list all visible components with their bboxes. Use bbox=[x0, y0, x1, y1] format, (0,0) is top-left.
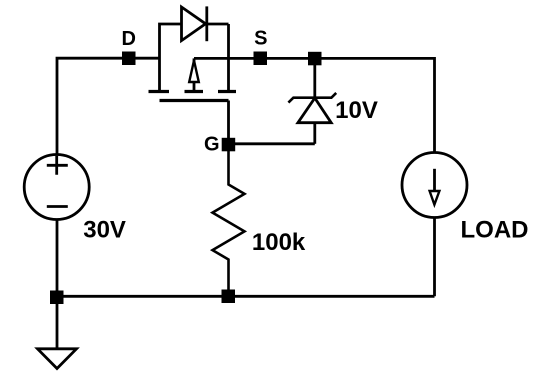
svg-text:10V: 10V bbox=[335, 97, 378, 124]
svg-text:100k: 100k bbox=[252, 229, 306, 256]
svg-text:30V: 30V bbox=[83, 217, 126, 244]
wire ground stem bbox=[56, 302, 59, 349]
transistor source contact bar bbox=[218, 90, 236, 93]
wire top-left rail + left vertical top bbox=[57, 58, 160, 154]
node bottom-left junction dot bbox=[50, 291, 64, 305]
svg-text:LOAD: LOAD bbox=[461, 217, 529, 244]
node S junction dot bbox=[254, 52, 268, 66]
wire top-right rail + right vertical top bbox=[194, 58, 435, 152]
current source LOAD arrow head bbox=[430, 191, 440, 205]
wire zener top vertical bbox=[313, 58, 316, 98]
transistor body contact bar bbox=[185, 90, 204, 93]
transistor drain contact bar bbox=[149, 90, 170, 93]
wire diode to source stub bbox=[207, 23, 229, 26]
wire zener bottom vertical bbox=[313, 123, 316, 144]
wire left vertical bottom bbox=[56, 220, 59, 293]
wire right vertical bottom bbox=[433, 218, 436, 297]
current source LOAD circle bbox=[402, 153, 467, 218]
node G junction dot bbox=[222, 138, 236, 152]
ground symbol triangle bbox=[38, 349, 77, 369]
svg-text:S: S bbox=[254, 28, 267, 50]
node zener-top junction dot bbox=[308, 52, 322, 66]
transistor body arrow shaft bbox=[193, 58, 196, 91]
wire drain vertical with diode branch left corner bbox=[160, 24, 182, 91]
zener D1 anode triangle bbox=[298, 98, 331, 123]
resistor R1 100k zigzag bbox=[213, 151, 245, 290]
wire source stub vertical bbox=[227, 24, 230, 91]
wire bottom rail bbox=[57, 295, 435, 298]
svg-text:D: D bbox=[121, 28, 135, 50]
diode body (anode triangle) bbox=[182, 7, 206, 41]
wire node G to zener bottom bbox=[229, 142, 315, 145]
node bottom-middle junction dot bbox=[222, 290, 236, 304]
source V1 circle bbox=[24, 155, 89, 220]
zener D1 cathode bar with bent ends bbox=[288, 93, 336, 103]
current source LOAD arrow shaft bbox=[433, 169, 436, 192]
diode cathode bar bbox=[205, 6, 208, 41]
wire gate drop to node G bbox=[227, 101, 230, 145]
source V1 minus sign bbox=[47, 205, 68, 208]
transistor body arrow head bbox=[189, 61, 199, 83]
source V1 plus sign bbox=[47, 156, 68, 175]
node D junction dot bbox=[122, 52, 136, 66]
svg-text:G: G bbox=[204, 134, 220, 156]
transistor gate line bbox=[160, 99, 229, 102]
